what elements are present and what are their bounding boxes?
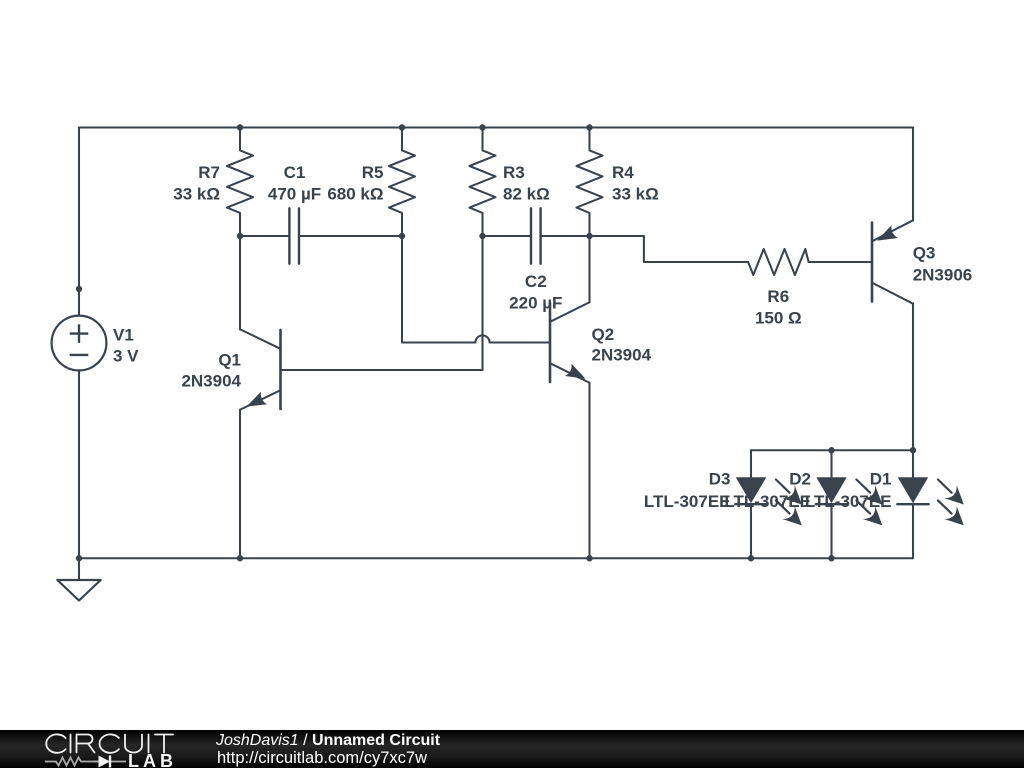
svg-text:Q1: Q1 [218,351,241,370]
svg-text:R5: R5 [362,163,384,182]
svg-text:D3: D3 [709,470,731,489]
svg-text:LAB: LAB [128,751,177,768]
transistor Q2 [550,303,589,383]
svg-text:3 V: 3 V [113,347,139,366]
svg-text:2N3906: 2N3906 [913,265,973,284]
svg-text:V1: V1 [113,326,134,345]
wire R5 to Q2 base (left part) [402,236,475,343]
node LED top D2 [828,447,834,453]
capacitor C1 [240,208,402,263]
wire Q2 emitter to bottom rail [588,383,590,559]
wire Q1 base to R3 column [281,369,483,371]
svg-text:33 kΩ: 33 kΩ [612,185,659,204]
node Q1 emitter bottom [237,555,243,561]
svg-text:Q3: Q3 [913,244,936,263]
svg-text:680 kΩ: 680 kΩ [327,185,383,204]
svg-text:R7: R7 [198,163,220,182]
voltage source V1 [52,316,107,371]
LED D3 [735,450,802,558]
node C2 left [479,233,485,239]
svg-text:82 kΩ: 82 kΩ [503,185,550,204]
svg-text:D1: D1 [870,470,892,489]
svg-text:220 µF: 220 µF [509,293,562,312]
svg-text:LTL-307EE: LTL-307EE [724,492,811,511]
node LED top D1 [910,447,916,453]
wire R3 column down to Q1 base [481,236,483,370]
svg-text:2N3904: 2N3904 [181,372,241,391]
svg-text:33 kΩ: 33 kΩ [173,185,220,204]
node bottom-left junction [76,555,82,561]
svg-text:LTL-307EE: LTL-307EE [805,492,892,511]
transistor Q1 [241,330,281,410]
svg-text:C1: C1 [284,163,306,182]
wire top rail to Q3 emitter [912,128,914,221]
wire hop to Q2 base [490,341,550,343]
svg-text:R6: R6 [767,287,789,306]
node R3 top [479,124,485,130]
wire R4 node to R6 [590,236,749,262]
node D3 bottom [748,555,754,561]
wire bottom ground rail [79,557,913,559]
svg-text:C2: C2 [525,272,547,291]
node left column junction [76,286,82,292]
resistor R4 [577,128,603,237]
resistor R5 [389,128,415,237]
resistor R3 [470,128,496,237]
logo resistor-diode glyph [45,755,126,767]
node R5 top [399,124,405,130]
wire left column to V1+ [78,128,80,316]
svg-text:150 Ω: 150 Ω [755,309,802,328]
wire Q1 emitter to bottom rail [239,410,241,559]
svg-text:Q2: Q2 [592,325,615,344]
transistor Q3 [872,221,913,304]
svg-text:2N3904: 2N3904 [592,346,652,365]
svg-text:R4: R4 [612,163,634,182]
wire LED top rail [751,449,913,451]
LED D1 [897,450,964,558]
LED D2 [816,450,883,558]
node Q2 emitter bottom [586,555,592,561]
svg-text:D2: D2 [789,470,811,489]
resistor R7 [227,128,253,237]
svg-text:470 µF: 470 µF [268,185,321,204]
node C2 right [586,233,592,239]
wire R6 to Q3 base [809,261,872,263]
node C1 left [237,233,243,239]
svg-text:R3: R3 [503,163,525,182]
resistor R6 [748,249,809,275]
wire V1- to bottom rail [78,370,80,558]
wire R4 node to Q2 collector [588,236,590,303]
node D2 bottom [828,555,834,561]
wire top supply rail [79,126,913,128]
node C1 right [399,233,405,239]
wire hop over R3 column [475,335,489,342]
svg-text:LTL-307EE: LTL-307EE [644,492,731,511]
ground [57,558,100,600]
capacitor C2 [483,208,590,263]
wire R7 node to Q1 collector [239,236,241,330]
wire Q3 collector to LED rail [912,303,914,450]
node R4 top [586,124,592,130]
node R7 top [237,124,243,130]
logo text CIRCUIT [46,734,173,752]
